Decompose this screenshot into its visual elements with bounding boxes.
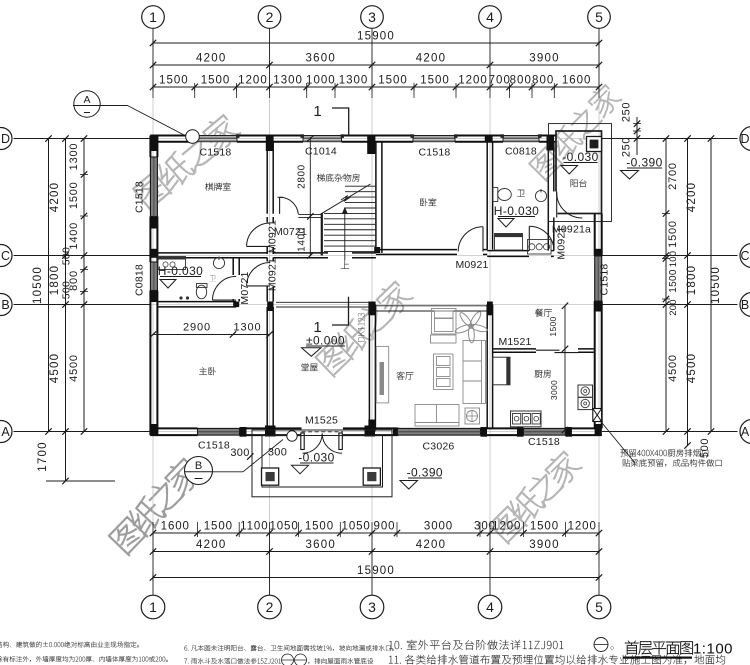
svg-text:A: A: [741, 425, 750, 439]
svg-text:250: 250: [621, 137, 633, 157]
svg-text:C1518: C1518: [134, 181, 146, 213]
svg-text:4200: 4200: [686, 182, 698, 212]
svg-text:M0921: M0921: [455, 259, 488, 271]
svg-text:5: 5: [595, 599, 603, 615]
svg-text:C1518: C1518: [198, 440, 230, 452]
svg-text:200: 200: [668, 299, 679, 315]
svg-text:3900: 3900: [529, 53, 559, 65]
svg-text:M0721: M0721: [274, 226, 307, 238]
svg-text:1500: 1500: [530, 521, 559, 533]
svg-text:1600: 1600: [562, 75, 592, 87]
svg-text:1500: 1500: [667, 220, 679, 248]
svg-text:M0921: M0921: [266, 220, 278, 253]
svg-text:700: 700: [489, 75, 511, 87]
svg-text:500: 500: [61, 247, 73, 265]
svg-text:1:100: 1:100: [693, 641, 733, 658]
svg-text:1: 1: [313, 319, 321, 336]
svg-text:D: D: [1, 132, 10, 146]
svg-text:1050: 1050: [342, 521, 371, 533]
svg-text:1: 1: [149, 9, 157, 25]
svg-text:C1518: C1518: [528, 436, 560, 448]
svg-text:-0.390: -0.390: [407, 466, 443, 480]
svg-text:±0.000: ±0.000: [306, 334, 345, 348]
svg-text:1: 1: [149, 599, 157, 615]
svg-text:500: 500: [61, 281, 73, 299]
svg-text:D: D: [740, 132, 749, 146]
svg-text:3000: 3000: [549, 380, 559, 400]
svg-text:M1525: M1525: [305, 415, 338, 427]
svg-text:1500: 1500: [159, 75, 189, 87]
svg-text:1400: 1400: [68, 222, 80, 250]
svg-text:4200: 4200: [49, 182, 61, 212]
svg-text:C: C: [740, 249, 749, 263]
svg-text:C: C: [1, 249, 10, 263]
svg-text:1300: 1300: [339, 75, 369, 87]
svg-text:C1518: C1518: [599, 264, 611, 296]
svg-text:4: 4: [486, 599, 494, 615]
svg-text:1600: 1600: [161, 521, 190, 533]
svg-text:C1518: C1518: [200, 147, 232, 159]
svg-text:4200: 4200: [196, 539, 226, 551]
svg-text:1000: 1000: [306, 75, 336, 87]
svg-text:15900: 15900: [357, 31, 395, 43]
svg-text:H-0.030: H-0.030: [158, 264, 204, 278]
svg-text:1500: 1500: [420, 75, 450, 87]
svg-text:900: 900: [374, 521, 396, 533]
svg-text:5: 5: [595, 9, 603, 25]
svg-text:1300: 1300: [273, 75, 303, 87]
svg-text:B: B: [741, 298, 749, 312]
svg-text:3600: 3600: [306, 539, 336, 551]
svg-text:800: 800: [510, 75, 532, 87]
svg-text:4500: 4500: [49, 353, 61, 383]
svg-text:1300: 1300: [68, 143, 80, 171]
svg-text:2800: 2800: [297, 164, 308, 189]
svg-text:B: B: [1, 298, 9, 312]
svg-text:A: A: [83, 94, 90, 106]
svg-text:1: 1: [313, 103, 321, 120]
svg-text:H-0.030: H-0.030: [494, 204, 540, 218]
svg-text:800: 800: [532, 75, 554, 87]
svg-text:4500: 4500: [686, 353, 698, 383]
svg-text:4500: 4500: [68, 354, 80, 382]
svg-text:1500: 1500: [378, 75, 408, 87]
svg-text:1500: 1500: [201, 75, 231, 87]
svg-text:2900: 2900: [183, 322, 211, 334]
svg-text:3600: 3600: [306, 53, 336, 65]
svg-text:B: B: [195, 460, 202, 472]
svg-text:-0.390: -0.390: [626, 156, 662, 170]
svg-text:2700: 2700: [667, 162, 679, 190]
svg-text:1050: 1050: [269, 521, 298, 533]
svg-text:1200: 1200: [492, 521, 521, 533]
svg-text:250: 250: [621, 102, 633, 122]
svg-text:C1518: C1518: [419, 147, 451, 159]
svg-text:100: 100: [668, 251, 679, 267]
svg-text:10500: 10500: [32, 266, 44, 304]
svg-text:300: 300: [268, 447, 287, 459]
svg-text:1500: 1500: [204, 521, 233, 533]
svg-text:M0921: M0921: [556, 226, 568, 259]
svg-text:4500: 4500: [667, 354, 679, 382]
svg-text:1200: 1200: [458, 75, 488, 87]
svg-text:-0.030: -0.030: [298, 451, 334, 465]
svg-text:4: 4: [486, 9, 494, 25]
svg-text:1700: 1700: [37, 441, 49, 471]
svg-text:1200: 1200: [568, 521, 597, 533]
svg-text:A: A: [1, 425, 10, 439]
svg-text:C3026: C3026: [423, 441, 455, 453]
svg-text:C0818: C0818: [134, 264, 146, 296]
svg-text:2: 2: [266, 599, 274, 615]
svg-text:M1521: M1521: [498, 336, 531, 348]
svg-text:1200: 1200: [238, 75, 268, 87]
svg-text:C0818: C0818: [505, 146, 537, 158]
svg-text:M0721: M0721: [239, 271, 251, 304]
svg-text:1500: 1500: [548, 316, 558, 336]
svg-text:3: 3: [368, 9, 376, 25]
svg-text:1100: 1100: [240, 521, 268, 533]
svg-text:2: 2: [266, 9, 274, 25]
svg-text:1500: 1500: [668, 269, 679, 293]
svg-text:4200: 4200: [416, 539, 446, 551]
svg-text:3000: 3000: [424, 521, 453, 533]
svg-text:1500: 1500: [68, 181, 80, 209]
svg-text:15900: 15900: [357, 565, 395, 577]
svg-text:1800: 1800: [49, 265, 61, 295]
svg-text:10500: 10500: [710, 266, 722, 304]
svg-text:4200: 4200: [196, 53, 226, 65]
svg-text:500: 500: [699, 438, 711, 458]
svg-text:1500: 1500: [305, 521, 334, 533]
svg-text:3: 3: [368, 599, 376, 615]
svg-text:-0.030: -0.030: [562, 150, 598, 164]
svg-text:M0921: M0921: [266, 258, 278, 291]
svg-text:1800: 1800: [686, 265, 698, 295]
svg-text:1300: 1300: [233, 322, 261, 334]
svg-text:C1014: C1014: [305, 146, 337, 158]
svg-text:3900: 3900: [529, 539, 559, 551]
svg-text:4200: 4200: [416, 53, 446, 65]
svg-text:300: 300: [230, 447, 249, 459]
